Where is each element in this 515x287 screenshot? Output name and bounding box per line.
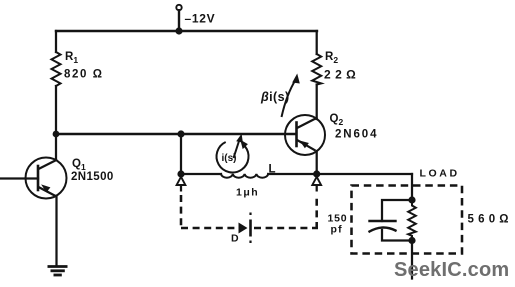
- wire right vertical mid: [316, 85, 318, 120]
- transistor Q2 collector: [297, 118, 317, 128]
- wire dashed left drop: [180, 195, 183, 229]
- beta i(s) curve: [282, 80, 296, 117]
- inductor L 1uh: [221, 174, 268, 178]
- svg-text:D: D: [231, 233, 239, 245]
- node junction load top: [408, 196, 415, 203]
- wire left vertical lower: [55, 86, 57, 160]
- current arrow i(s) head: [236, 134, 243, 143]
- ground bar1: [48, 265, 68, 268]
- svg-text:820 Ω: 820 Ω: [64, 69, 104, 81]
- wire dashed bottom right: [254, 227, 318, 230]
- wire inductor rail left: [181, 173, 221, 175]
- transistor Q2 base bar: [295, 123, 298, 147]
- transistor Q2 emitter arrow: [300, 141, 309, 149]
- wire inductor rail right to load: [268, 173, 412, 175]
- diode D bar tick below: [249, 241, 251, 244]
- node junction base rail left: [53, 131, 60, 138]
- diode D triangle: [239, 223, 248, 234]
- node junction load bottom: [408, 237, 415, 244]
- svg-text:pf: pf: [331, 224, 343, 236]
- current loop i(s) arc head: [240, 140, 248, 149]
- arrowhead open left (dashed to node): [177, 177, 186, 185]
- wire base rail: [56, 133, 296, 135]
- power terminal -12V: [176, 5, 181, 10]
- wire load bottom tail: [411, 241, 413, 279]
- wire top rail: [56, 30, 317, 32]
- transistor Q2 body: [285, 115, 325, 155]
- wire Q1 emitter down: [55, 196, 57, 266]
- transistor Q1 collector: [39, 160, 57, 169]
- svg-text:R2: R2: [325, 51, 338, 65]
- svg-text:–12V: –12V: [185, 12, 216, 26]
- svg-text:Q1: Q1: [72, 158, 86, 172]
- svg-text:i(s): i(s): [222, 153, 237, 164]
- wire cap branch bottom: [382, 230, 412, 241]
- svg-text:2N1500: 2N1500: [71, 171, 114, 183]
- wire stub below right arrowhead: [316, 186, 318, 192]
- beta i(s) arrow head: [292, 74, 300, 84]
- svg-text:22Ω: 22Ω: [324, 68, 360, 82]
- capacitor C bottom plate: [370, 227, 396, 231]
- arrowhead open right (dashed to node): [312, 177, 321, 185]
- wire stub below left arrowhead: [180, 186, 182, 192]
- svg-text:1μh: 1μh: [236, 187, 259, 199]
- wire dashed bottom left: [181, 227, 237, 230]
- ground bar2: [51, 269, 65, 272]
- svg-text:LOAD: LOAD: [420, 168, 460, 180]
- transistor Q1 body: [26, 158, 67, 199]
- wire Q1 base lead: [0, 177, 38, 179]
- capacitor C top plate: [370, 220, 396, 222]
- svg-text:Q2: Q2: [330, 113, 344, 127]
- svg-text:R1: R1: [65, 51, 78, 65]
- wire cap branch top: [382, 200, 412, 221]
- node junction inductor rail right: [313, 170, 320, 177]
- svg-text:L: L: [269, 164, 276, 176]
- wire load drop: [411, 174, 413, 200]
- diode D bar tick above: [249, 213, 251, 216]
- diode D cathode bar: [249, 220, 252, 237]
- wire terminal drop: [178, 10, 180, 31]
- svg-text:SeekIC.com: SeekIC.com: [394, 259, 509, 281]
- svg-text:2N604: 2N604: [335, 129, 378, 141]
- wire right vertical upper: [316, 31, 318, 54]
- transistor Q1 emitter: [39, 187, 56, 196]
- resistor R1: [52, 52, 61, 86]
- current loop i(s) arc: [217, 142, 249, 172]
- ground bar3: [54, 274, 62, 277]
- transistor Q1 base bar: [37, 166, 40, 190]
- wire right vertical low: [316, 151, 318, 174]
- svg-text:560Ω: 560Ω: [468, 214, 513, 226]
- load box dashed: [352, 186, 463, 254]
- transistor Q1 emitter arrow: [41, 184, 50, 192]
- wire left vertical upper: [55, 31, 57, 52]
- svg-text:βi(s): βi(s): [260, 90, 290, 104]
- wire dashed right rise: [315, 195, 318, 229]
- resistor R2: [312, 54, 321, 85]
- transistor Q2 emitter: [297, 140, 315, 150]
- current arrow i(s) straight: [234, 138, 241, 158]
- resistor load 560: [408, 200, 416, 241]
- node junction base rail mid: [177, 130, 184, 137]
- node junction inductor rail left: [177, 170, 184, 177]
- wire link x181: [180, 134, 182, 174]
- node junction -12V rail: [175, 27, 182, 34]
